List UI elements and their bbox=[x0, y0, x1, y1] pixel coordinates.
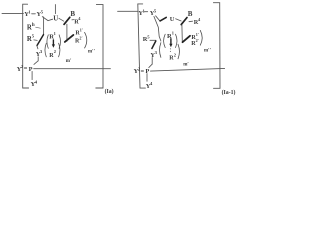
wire chain from P to right bbox=[34, 68, 111, 70]
svg-text:B: B bbox=[188, 10, 193, 18]
svg-text:2′: 2′ bbox=[79, 36, 82, 41]
wire Y5 to U diagonal bbox=[42, 17, 52, 21]
node right repeat bracket ] bbox=[213, 3, 220, 89]
wire Rh bond bbox=[36, 27, 41, 28]
svg-text:(Ia-1): (Ia-1) bbox=[222, 89, 236, 96]
node R2 in parens bbox=[160, 43, 161, 58]
node right repeat bracket ] bbox=[96, 5, 103, 88]
node R2 in parens bbox=[45, 43, 46, 57]
svg-text:1: 1 bbox=[54, 31, 56, 36]
svg-text:m′′: m′′ bbox=[88, 50, 96, 55]
svg-text:2: 2 bbox=[174, 53, 176, 58]
wire P down bond bbox=[146, 74, 148, 82]
svg-text:h: h bbox=[32, 23, 35, 28]
svg-text:m′: m′ bbox=[66, 59, 72, 64]
wire ring wedge seven bbox=[152, 41, 156, 49]
wire Y3 to P bond bbox=[149, 64, 152, 67]
wire Y1-Y5 bond bbox=[144, 11, 147, 13]
svg-text:U: U bbox=[53, 16, 58, 23]
svg-text:m′′: m′′ bbox=[204, 49, 212, 54]
wire central bond from Y5 down bbox=[43, 17, 45, 35]
svg-text:1′: 1′ bbox=[80, 28, 83, 33]
wire bold arrow down bbox=[52, 40, 54, 45]
wire backbone entering left bbox=[118, 10, 138, 12]
node outer close paren bbox=[85, 32, 87, 48]
node outer close paren bbox=[200, 30, 202, 45]
svg-text:(Ia): (Ia) bbox=[105, 88, 114, 95]
wire P down bond bbox=[31, 71, 33, 79]
wire Y5 to U zigzag bbox=[156, 16, 160, 21]
wire bond C-R4 bbox=[189, 20, 193, 23]
wire wedge bond to R primes bbox=[65, 35, 74, 42]
wire Y1-Y5 bond bbox=[32, 13, 36, 15]
wire Y3 down bond bbox=[37, 57, 39, 61]
svg-text:U: U bbox=[170, 16, 175, 23]
wire wedge bond to R primes bbox=[183, 36, 191, 42]
wire wedge bond C-B bbox=[181, 18, 187, 25]
node inner close paren bbox=[176, 34, 178, 47]
node left repeat bracket [ bbox=[23, 4, 29, 88]
svg-text:1: 1 bbox=[172, 31, 174, 36]
wire ring vertex upper bbox=[37, 35, 44, 46]
svg-text:=: = bbox=[24, 66, 28, 73]
wire chain from P to right bbox=[151, 68, 225, 71]
node inner close paren bbox=[59, 35, 60, 49]
svg-text:2′: 2′ bbox=[196, 38, 199, 43]
wire wedge bond C-B bbox=[64, 17, 70, 24]
node left repeat bracket [ bbox=[138, 4, 146, 88]
node inner open paren bbox=[164, 34, 166, 47]
svg-text:2: 2 bbox=[54, 49, 56, 54]
wire bond C down to ring bbox=[181, 25, 183, 42]
wire R5 bond bbox=[34, 39, 37, 42]
svg-text:B: B bbox=[70, 10, 75, 18]
wire bond C-R4 bbox=[72, 19, 74, 21]
node inner open paren bbox=[47, 35, 48, 49]
wire bond C down to ring bbox=[66, 24, 68, 41]
wire central bond from Y5 down bbox=[154, 16, 161, 41]
svg-text:m′: m′ bbox=[183, 62, 189, 67]
wire U to C bond bbox=[59, 18, 64, 21]
wire backbone entering left bbox=[2, 12, 23, 14]
wire Y3 down bond bbox=[151, 58, 153, 65]
wire U to C bond bbox=[176, 19, 182, 21]
svg-text:1′: 1′ bbox=[196, 32, 199, 37]
wire Y3 to P bond bbox=[34, 61, 38, 65]
wire bold arrow down bbox=[170, 39, 172, 44]
wire R5 bond bbox=[150, 39, 156, 41]
wire ring vertex lower bbox=[37, 46, 38, 49]
svg-text:=: = bbox=[141, 68, 145, 75]
wire bond up from U bbox=[54, 5, 56, 14]
